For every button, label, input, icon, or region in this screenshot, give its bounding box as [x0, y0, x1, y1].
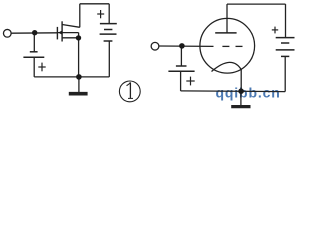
svg-text:qqibb.cn: qqibb.cn	[216, 84, 281, 100]
